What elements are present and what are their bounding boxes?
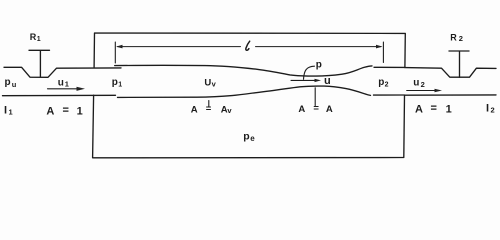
right duct bottom wall (405, 94, 497, 96)
svg-text:I: I (486, 102, 489, 114)
svg-text:A: A (326, 104, 333, 115)
svg-text:e: e (250, 134, 255, 143)
svg-text:2: 2 (421, 80, 425, 89)
enclosure box (93, 33, 406, 158)
left duct bottom wall (3, 94, 116, 96)
dimension line l (118, 46, 382, 48)
svg-text:u: u (324, 75, 331, 87)
tract lower wall curve (118, 86, 405, 97)
p leader line (304, 66, 315, 79)
resistance R2 symbol (449, 51, 469, 77)
svg-text:R: R (30, 32, 37, 42)
svg-text:1: 1 (446, 103, 452, 115)
svg-text:R: R (450, 32, 457, 42)
svg-text:u: u (413, 77, 419, 88)
svg-text:p: p (5, 77, 11, 88)
svg-text:1: 1 (9, 108, 13, 117)
svg-text:A: A (46, 105, 54, 117)
svg-text:1: 1 (118, 82, 122, 89)
svg-text:u: u (12, 80, 17, 89)
svg-text:A: A (191, 104, 198, 115)
svg-text:p: p (378, 77, 384, 88)
dimension arrowheads (116, 45, 383, 49)
section tick A=Av (208, 101, 210, 107)
u1 flow arrow (48, 88, 81, 90)
svg-text:1: 1 (65, 80, 69, 89)
u constriction arrow (291, 79, 315, 81)
svg-text:=: = (206, 103, 212, 114)
svg-text:2: 2 (385, 82, 389, 89)
svg-text:A: A (298, 104, 305, 115)
u2 flow arrow (407, 90, 436, 92)
svg-text:p: p (112, 77, 118, 88)
tract upper wall curve (115, 65, 405, 76)
dimension line ticks (115, 42, 383, 63)
svg-text:A: A (415, 103, 423, 115)
svg-text:v: v (227, 106, 232, 115)
svg-text:=: = (313, 103, 319, 114)
section tick A=A (314, 88, 316, 106)
svg-text:U: U (204, 77, 211, 88)
svg-text:v: v (212, 80, 217, 89)
svg-text:=: = (63, 105, 69, 117)
svg-text:I: I (4, 105, 7, 117)
svg-text:2: 2 (459, 34, 463, 43)
label l (script ell) (246, 41, 250, 50)
svg-text:2: 2 (491, 105, 495, 114)
svg-text:u: u (58, 78, 64, 89)
right duct top wall with R2 notch (405, 68, 496, 78)
resistance R1 symbol (29, 50, 50, 77)
svg-text:=: = (431, 103, 437, 115)
svg-text:1: 1 (77, 105, 83, 117)
svg-text:p: p (243, 130, 249, 142)
svg-text:1: 1 (37, 36, 41, 43)
svg-text:p: p (316, 59, 322, 70)
left duct top wall with R1 notch (4, 67, 121, 77)
